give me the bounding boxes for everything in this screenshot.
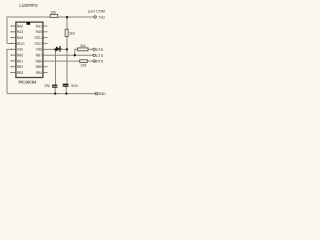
svg-text:RB5: RB5 — [36, 64, 42, 69]
terminal TxD — [94, 16, 96, 18]
junction node DTR branch on RB7 — [74, 54, 76, 56]
pin labels U1 right column — [35, 23, 43, 75]
pin labels U1 left column — [17, 23, 25, 75]
junction node Vdd and R2 — [66, 48, 68, 50]
svg-text:RA1: RA1 — [36, 23, 42, 28]
wire zener to ground rail — [65, 87, 67, 94]
svg-text:RB1: RB1 — [17, 58, 23, 63]
svg-text:10k: 10k — [50, 11, 56, 15]
svg-text:LUDIPIPO: LUDIPIPO — [19, 3, 38, 8]
wire RB7 row to CTS — [43, 54, 93, 56]
junction node C1 on ground rail — [54, 92, 56, 94]
terminal CTS — [93, 54, 95, 56]
zener D2 5V6 — [63, 84, 69, 86]
capacitor C1 10u — [52, 85, 57, 87]
wire Vss to ground rail — [7, 49, 16, 93]
resistor R1 10k — [50, 14, 58, 17]
svg-text:RTS: RTS — [96, 60, 104, 64]
svg-text:Vdd: Vdd — [36, 47, 42, 52]
pin stubs left RA2 RA3 RA4 RB0 RB1 RB2 RB3 — [11, 26, 16, 73]
svg-text:OSC1: OSC1 — [35, 35, 42, 40]
svg-text:MCLR: MCLR — [17, 41, 25, 46]
svg-text:RB7: RB7 — [36, 53, 42, 58]
svg-text:RA0: RA0 — [36, 29, 43, 34]
wire DTR branch down to RB7 — [75, 49, 78, 55]
svg-text:RA4: RA4 — [17, 35, 24, 40]
wire Vdd row — [43, 48, 67, 50]
resistor R3 2k2 horizontal — [78, 48, 88, 51]
svg-text:RA3: RA3 — [17, 29, 23, 34]
svg-text:RB4: RB4 — [36, 70, 43, 75]
diode D1 — [56, 46, 62, 52]
wire 10u cap branch — [55, 49, 57, 84]
wire 2k2 to Vdd junction — [66, 37, 68, 50]
wire Vdd junction to zener — [66, 49, 68, 83]
pin stubs right RA1 RA0 OSC1 OSC2 RB5 RB4 — [43, 26, 48, 73]
pin arrows left column — [11, 25, 13, 73]
svg-text:Vss: Vss — [17, 47, 23, 52]
svg-text:5V6: 5V6 — [71, 84, 77, 88]
svg-text:RB0: RB0 — [17, 53, 24, 58]
svg-text:PIC16C84: PIC16C84 — [19, 79, 37, 84]
wire ground rail — [7, 93, 95, 95]
terminal RTS — [93, 60, 95, 62]
terminal GND — [95, 92, 97, 94]
wire RB6 row to RTS resistor — [43, 60, 80, 62]
svg-text:RB6: RB6 — [36, 58, 42, 63]
wire DTR resistor to DTR circle — [88, 48, 93, 50]
wire MCLR stub — [7, 43, 16, 45]
wire RTS resistor to RTS circle — [87, 60, 93, 62]
junction node D2 on ground rail — [65, 92, 67, 94]
svg-text:22k: 22k — [81, 64, 87, 68]
IC U1 PIC16C84 body — [16, 22, 43, 77]
svg-text:10µ: 10µ — [44, 84, 50, 88]
resistor R2 2k2 vertical — [65, 29, 68, 36]
wire top rail TxD to MCLR rail — [7, 17, 94, 44]
terminal DTR — [93, 48, 95, 50]
junction node at R1 output — [66, 16, 68, 18]
svg-text:2k2: 2k2 — [80, 44, 86, 48]
svg-text:RA2: RA2 — [17, 23, 23, 28]
svg-text:CTS: CTS — [96, 54, 104, 58]
svg-text:TxD: TxD — [98, 15, 105, 19]
svg-text:2k2: 2k2 — [69, 31, 75, 35]
resistor R4 22k — [80, 60, 88, 63]
svg-text:DTR: DTR — [96, 48, 104, 52]
wire 10u cap to ground rail — [54, 88, 56, 94]
svg-text:GND: GND — [98, 92, 106, 96]
svg-text:RB2: RB2 — [17, 64, 23, 69]
svg-text:port COM: port COM — [88, 10, 105, 14]
svg-text:OSC2: OSC2 — [35, 41, 42, 46]
wire 2k2 vertical branch — [66, 17, 68, 29]
svg-text:RB3: RB3 — [17, 70, 23, 75]
junction node Vdd and C1 — [54, 48, 56, 50]
IC U1 notch mark — [27, 22, 31, 25]
